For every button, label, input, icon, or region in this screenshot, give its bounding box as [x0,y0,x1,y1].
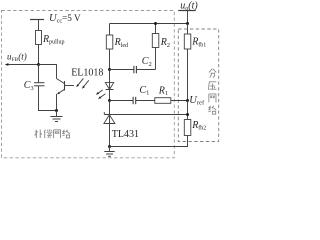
wire uFB node to phototransistor collector [39,65,57,79]
wire R1 to Uref node [171,100,188,102]
phototransistor of EL1018 [57,79,75,111]
divider network dashed box [178,29,218,142]
capacitor C3 [24,65,45,92]
node ref wire junction [186,113,189,116]
svg-text:uo(t): uo(t) [180,0,198,12]
分 [209,69,216,78]
wire Rfb1 to Uref node [187,49,189,101]
top rail wire [110,23,188,25]
ground under phototransistor [51,111,63,122]
ground under TL431 [104,147,114,157]
label compensation network 补偿网络 [35,129,70,138]
uFB(t) output arrow wire [5,51,39,66]
light arrow from LED 1 [96,90,103,95]
wire rail to Rled [109,24,111,36]
light arrow into phototransistor 1 [76,78,83,87]
label divider network 分压网络 (vertical) [208,69,216,114]
resistor R2 [152,34,170,50]
resistor R1 [155,85,171,103]
wire uo bar to rail [187,11,189,24]
resistor Rled [106,35,128,49]
resistor Rpullup [36,31,65,46]
偿 [44,129,52,138]
wire Rfb2 to TL431 anode [110,136,188,147]
node emitter/C3 junction [55,109,58,112]
node LED cathode / C1 junction [108,99,111,102]
TL431 shunt regulator [104,101,139,147]
svg-text:EL1018: EL1018 [71,68,103,79]
light arrow into phototransistor 2 [82,80,89,89]
wire Ucc bar to Rpullup [38,20,40,31]
络 [208,106,216,114]
resistor Rfb1 [184,34,206,49]
wire C3 to emitter node [39,86,57,111]
node Rled/C2 junction [108,68,111,71]
svg-text:TL431: TL431 [112,129,139,140]
补 [35,130,42,138]
wire Rled to LED anode node [109,49,111,70]
LED of EL1018 [105,70,113,101]
Ucc power terminal bar [30,19,44,21]
node R2/rail junction [154,22,157,25]
wire rail to Rfb1 [187,24,189,35]
node Uref [186,99,189,102]
uo(t) output terminal bar [178,10,195,12]
网 [209,94,216,102]
TL431 reference wire [113,114,188,116]
网 [54,130,61,138]
wire Rpullup to uFB node [38,45,40,65]
压 [208,82,216,90]
capacitor C2 [110,56,156,73]
wire R2 top to rail [155,24,157,34]
outer dashed box (compensation network region) [2,11,175,158]
node TL431 anode junction [108,145,111,148]
light arrow from LED 2 [98,94,105,99]
resistor Rfb2 [184,120,206,136]
capacitor C1 [110,85,155,104]
node uFB junction [37,63,40,66]
node uo/rail junction [186,22,189,25]
wire Uref node to Rfb2 [187,101,189,120]
络 [63,130,70,138]
wire C2 to R2 bottom [155,48,157,70]
